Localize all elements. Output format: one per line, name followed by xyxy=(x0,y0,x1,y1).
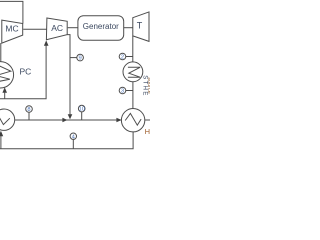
node 2 tick xyxy=(126,56,133,58)
node 2 xyxy=(119,53,126,60)
node 3 tick xyxy=(126,90,133,92)
svg-text:MC: MC xyxy=(5,23,18,33)
arrow down at riser junction xyxy=(68,114,73,119)
node 10 tick xyxy=(81,112,83,120)
wire shaft MC-AC xyxy=(23,28,47,30)
svg-text:H: H xyxy=(145,127,150,136)
arrow into heater xyxy=(116,118,121,123)
node 8 xyxy=(26,106,33,113)
svg-text:PC: PC xyxy=(20,67,32,77)
generator xyxy=(78,16,124,41)
wire MC inlet from PC xyxy=(0,43,2,62)
wire RHE bottom feed xyxy=(0,136,2,149)
wire T outlet down to STHE xyxy=(132,36,134,62)
arrow into RHE xyxy=(0,131,3,137)
node 9 tick xyxy=(70,57,77,59)
wire heater bottom loop xyxy=(0,132,133,149)
arrow merge right on y120 xyxy=(62,118,67,123)
wire AC outlet down xyxy=(67,35,70,119)
node 4 xyxy=(70,133,76,139)
node 10 xyxy=(78,105,85,112)
node 4 tick xyxy=(72,139,74,148)
svg-text:9: 9 xyxy=(78,56,81,62)
heat exchanger STHE xyxy=(123,62,143,82)
wire heater right stub xyxy=(145,119,150,121)
wire line y99 xyxy=(0,45,46,99)
svg-text:2: 2 xyxy=(121,55,124,61)
node 9 xyxy=(77,54,84,61)
svg-text:10: 10 xyxy=(78,107,84,113)
svg-text:3: 3 xyxy=(121,89,124,95)
svg-text:T: T xyxy=(137,21,143,31)
compressor MC xyxy=(2,20,23,43)
precooler PC xyxy=(0,62,14,88)
wire main line y120 xyxy=(15,119,122,121)
svg-text:Generator: Generator xyxy=(83,22,119,31)
svg-text:AC: AC xyxy=(51,23,63,33)
heat exchanger RHE bottom left xyxy=(0,109,15,130)
svg-text:source: source xyxy=(146,77,150,94)
heater circle xyxy=(121,109,144,132)
wire PC riser xyxy=(4,93,6,99)
node 3 xyxy=(119,87,126,94)
arrow into PC xyxy=(2,87,7,93)
turbine T xyxy=(133,12,149,42)
wire shaft AC-Generator xyxy=(68,27,78,29)
compressor AC xyxy=(46,18,67,40)
wire STHE to Heater xyxy=(132,82,134,109)
wire top from MC to left edge xyxy=(0,1,23,23)
wire shaft Generator-T xyxy=(124,27,133,29)
svg-text:8: 8 xyxy=(27,107,30,113)
arrow into AC xyxy=(44,40,49,45)
node 8 tick xyxy=(28,112,30,120)
